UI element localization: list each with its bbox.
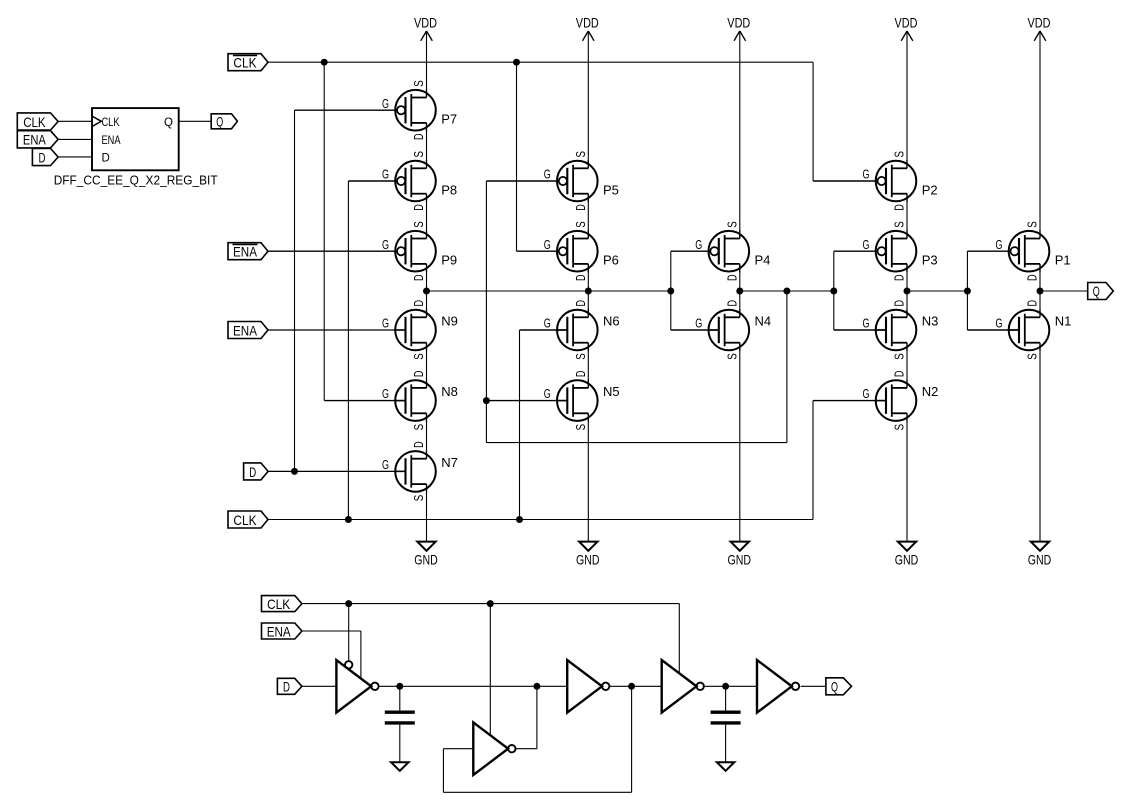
junction stage2 feedback tap: [783, 288, 790, 295]
wire D up to P7 gate: [294, 110, 296, 471]
svg-text:D: D: [892, 275, 907, 282]
svg-text:D: D: [725, 300, 740, 307]
transistor P6: [544, 221, 619, 281]
svg-text:CLK: CLK: [233, 55, 257, 71]
power VDD column 1: [414, 15, 437, 41]
wire net CLK horizontal: [268, 519, 813, 521]
svg-text:D: D: [573, 204, 588, 211]
flag CLK input: [228, 511, 268, 528]
wire rail column 2: [587, 413, 589, 541]
wire to P1 gate: [967, 250, 1010, 252]
wire to P2 gate: [813, 180, 878, 182]
transistor P2: [863, 151, 938, 211]
wire rail column 1: [426, 343, 428, 388]
svg-text:VDD: VDD: [1028, 15, 1051, 31]
wire to P8 gate: [348, 180, 397, 182]
svg-text:ENA: ENA: [102, 135, 121, 147]
flag ENA input of DFF block: [17, 131, 58, 148]
svg-text:G: G: [382, 457, 389, 472]
svg-text:G: G: [382, 237, 389, 252]
svg-text:VDD: VDD: [727, 15, 750, 31]
svg-text:G: G: [382, 167, 389, 182]
svg-text:D: D: [892, 204, 907, 211]
wire U3 input bottom horizontal: [443, 791, 631, 793]
svg-text:N6: N6: [603, 314, 620, 329]
svg-text:S: S: [725, 353, 740, 360]
svg-text:S: S: [411, 353, 426, 360]
wire CLK down to U3 enable: [489, 604, 491, 736]
junction stage2 at P3 N3 gates: [830, 288, 837, 295]
junction node master at P4 N4 gates: [667, 288, 674, 295]
wire C1 bottom: [399, 725, 401, 763]
svg-text:D: D: [573, 275, 588, 282]
wire net ENA bottom: [302, 630, 361, 632]
wire to N4 gate: [671, 329, 719, 331]
tri-state inverter U5: [662, 660, 704, 713]
svg-text:ENA: ENA: [267, 623, 291, 639]
svg-text:Q: Q: [831, 679, 838, 695]
wire rail column 1: [426, 264, 428, 317]
svg-text:N5: N5: [603, 384, 620, 399]
svg-text:D: D: [411, 204, 426, 211]
wire ENA flag to DFF block: [58, 138, 92, 140]
transistor P7: [382, 80, 457, 140]
svg-text:S: S: [1025, 221, 1040, 228]
wire rail column 1: [426, 484, 428, 541]
transistor N9: [382, 300, 458, 360]
svg-text:S: S: [573, 221, 588, 228]
wire CLK up to N6 gate: [519, 330, 521, 520]
flag Q output of DFF block: [211, 114, 237, 130]
inverter U4: [567, 660, 609, 713]
junction CLK_bar at x324: [321, 59, 328, 66]
wire U4 output node: [609, 685, 661, 687]
svg-text:G: G: [695, 316, 702, 331]
svg-text:S: S: [892, 221, 907, 228]
svg-text:D: D: [38, 149, 45, 165]
junction node master at rail2: [585, 288, 592, 295]
wire P4 N4 gate vertical: [670, 251, 672, 330]
wire CLK up to P8 gate: [347, 181, 349, 520]
flag CLK input bottom: [262, 596, 302, 612]
wire U5 output node: [704, 685, 757, 687]
junction CLK_bar at x516: [513, 59, 520, 66]
svg-text:G: G: [544, 167, 551, 182]
svg-text:DFF_CC_EE_Q_X2_REG_BIT: DFF_CC_EE_Q_X2_REG_BIT: [54, 173, 218, 188]
wire P1 N1 gate vertical: [966, 251, 968, 330]
ground GND column 4: [895, 542, 919, 568]
wire to P5 gate: [486, 180, 559, 182]
flag Q output bottom: [826, 678, 852, 695]
flag D input bottom: [277, 678, 302, 694]
svg-text:P3: P3: [922, 253, 938, 268]
svg-text:P9: P9: [441, 253, 457, 268]
wire ENA down to U2: [360, 631, 362, 679]
wire CLK down to U5 enable: [678, 604, 680, 673]
svg-text:G: G: [863, 316, 870, 331]
svg-text:S: S: [411, 151, 426, 158]
junction stage2 at rail3: [736, 288, 743, 295]
transistor P9: [382, 221, 457, 281]
DFF block clock wedge: [92, 116, 101, 126]
wire CLK down to U2 enable bubble: [348, 604, 350, 662]
transistor N3: [863, 300, 939, 360]
wire C2 bottom: [725, 725, 727, 763]
junction slave at rail4: [904, 288, 911, 295]
wire CLK_bar down to P6 gate: [516, 62, 518, 251]
wire rail column 4: [906, 264, 908, 317]
svg-text:D: D: [1025, 275, 1040, 282]
svg-text:S: S: [892, 151, 907, 158]
svg-text:Q: Q: [164, 117, 173, 129]
flag ENA_bar input: [228, 243, 268, 260]
wire C2 top: [725, 686, 727, 710]
junction D at x294: [291, 468, 298, 475]
svg-text:P1: P1: [1055, 253, 1071, 268]
capacitor C2: [711, 712, 741, 723]
svg-text:Q: Q: [216, 114, 223, 130]
svg-text:D: D: [102, 153, 110, 165]
wire U6 output to Q: [801, 685, 826, 687]
wire to N1 gate: [967, 329, 1018, 331]
svg-text:GND: GND: [1028, 552, 1052, 568]
svg-text:CLK: CLK: [23, 114, 46, 130]
wire rail column 3: [739, 264, 741, 317]
wire rail column 2: [587, 194, 589, 239]
ground GND column 2: [576, 542, 600, 568]
wire rail column 4: [906, 194, 908, 239]
junction CLK at x519: [516, 516, 523, 523]
tri-state inverter U2 (input stage): [336, 660, 378, 713]
svg-text:D: D: [573, 371, 588, 378]
svg-text:P5: P5: [603, 183, 619, 198]
junction CLK at x348: [345, 516, 352, 523]
wire net ENA_bar to P9 gate: [268, 250, 397, 252]
svg-text:GND: GND: [895, 552, 919, 568]
svg-text:GND: GND: [728, 552, 752, 568]
svg-text:G: G: [996, 316, 1003, 331]
wire into U3: [443, 748, 473, 750]
svg-text:N1: N1: [1055, 314, 1072, 329]
power VDD column 5: [1028, 15, 1051, 41]
svg-text:G: G: [544, 316, 551, 331]
svg-text:N3: N3: [922, 314, 939, 329]
wire node master output: [427, 290, 671, 292]
svg-text:D: D: [892, 371, 907, 378]
enable bubble of U2: [345, 661, 352, 668]
svg-text:G: G: [695, 237, 702, 252]
svg-text:D: D: [725, 275, 740, 282]
wire rail column 1: [426, 123, 428, 168]
transistor P1: [996, 221, 1071, 281]
wire feedback down: [786, 291, 788, 443]
ground below C1: [391, 762, 409, 771]
wire rail column 1: [426, 413, 428, 458]
wire rail column 2: [587, 343, 589, 388]
power VDD column 3: [727, 15, 750, 41]
wire rail column 3: [739, 31, 741, 239]
wire U3 output up: [536, 686, 538, 748]
transistor P4: [695, 221, 770, 281]
flag ENA input bottom: [262, 623, 302, 639]
transistor P8: [382, 151, 457, 211]
junction node master at rail1: [423, 288, 430, 295]
wire to P7 gate: [295, 109, 398, 111]
wire DFF block Q output: [179, 120, 212, 122]
svg-text:N8: N8: [441, 384, 458, 399]
wire CLK_bar down to P2 gate: [812, 62, 814, 181]
svg-text:G: G: [382, 386, 389, 401]
wire CLK flag to DFF block: [58, 120, 92, 122]
wire CLK_bar down to N8 gate: [323, 62, 325, 400]
DFF block symbol U1 body: [92, 108, 179, 170]
svg-text:S: S: [892, 424, 907, 431]
junction slave at P1 N1 gates: [964, 288, 971, 295]
svg-text:VDD: VDD: [414, 15, 437, 31]
svg-text:G: G: [544, 386, 551, 401]
transistor N4: [695, 300, 771, 360]
wire rail column 2: [587, 264, 589, 317]
svg-text:N7: N7: [441, 455, 458, 470]
flag D input: [244, 463, 269, 480]
svg-text:CLK: CLK: [233, 512, 257, 528]
svg-text:P6: P6: [603, 253, 619, 268]
ground below C2: [717, 762, 735, 771]
svg-text:CLK: CLK: [102, 117, 120, 129]
svg-text:ENA: ENA: [233, 244, 257, 260]
svg-text:G: G: [544, 237, 551, 252]
svg-text:S: S: [1025, 353, 1040, 360]
wire rail column 4: [906, 31, 908, 168]
wire net D to N7 gate: [268, 470, 406, 472]
svg-text:S: S: [411, 221, 426, 228]
junction CLK at U3: [487, 600, 494, 607]
wire to N5 gate: [486, 400, 567, 402]
wire U2 output node: [378, 685, 567, 687]
svg-text:S: S: [411, 494, 426, 501]
svg-text:P2: P2: [922, 183, 938, 198]
svg-text:GND: GND: [414, 552, 438, 568]
wire net ENA to N9 gate: [268, 329, 406, 331]
svg-text:N4: N4: [755, 314, 772, 329]
junction feedback at N5 gate: [483, 397, 490, 404]
transistor N8: [382, 371, 458, 431]
svg-text:D: D: [411, 371, 426, 378]
svg-text:ENA: ENA: [233, 322, 257, 338]
wire rail column 5: [1039, 343, 1041, 542]
svg-text:S: S: [573, 151, 588, 158]
transistor N1: [996, 300, 1072, 360]
power VDD column 4: [895, 15, 918, 41]
wire C1 top: [399, 686, 401, 710]
wire rail column 2: [587, 31, 589, 168]
wire node slave output: [907, 290, 967, 292]
wire to P6 gate: [517, 250, 559, 252]
svg-text:D: D: [1025, 300, 1040, 307]
ground GND column 1: [414, 542, 438, 568]
svg-text:S: S: [573, 424, 588, 431]
wire rail column 5: [1039, 264, 1041, 317]
svg-text:G: G: [382, 316, 389, 331]
svg-text:S: S: [725, 221, 740, 228]
wire to N3 gate: [834, 329, 886, 331]
svg-text:D: D: [283, 679, 290, 695]
flag ENA input: [228, 322, 268, 339]
svg-text:G: G: [863, 167, 870, 182]
transistor N7: [382, 441, 458, 501]
svg-text:D: D: [411, 300, 426, 307]
ground GND column 5: [1028, 542, 1052, 568]
wire node Q output: [1040, 290, 1087, 292]
wire to N6 gate: [520, 329, 568, 331]
wire to P3 gate: [834, 250, 878, 252]
wire U3 input down: [631, 686, 633, 792]
wire rail column 5: [1039, 31, 1041, 239]
svg-text:S: S: [411, 80, 426, 87]
svg-text:P8: P8: [441, 183, 457, 198]
wire net CLK bottom: [302, 603, 679, 605]
svg-text:N9: N9: [441, 314, 458, 329]
svg-text:D: D: [573, 300, 588, 307]
svg-text:D: D: [892, 300, 907, 307]
wire P3 N3 gate vertical: [833, 251, 835, 330]
junction CLK at U2: [345, 600, 352, 607]
svg-text:D: D: [411, 275, 426, 282]
svg-text:S: S: [573, 353, 588, 360]
svg-text:P7: P7: [441, 112, 457, 127]
wire rail column 4: [906, 413, 908, 541]
transistor N2: [863, 371, 939, 431]
junction Q at rail5: [1037, 288, 1044, 295]
svg-text:D: D: [411, 441, 426, 448]
svg-text:G: G: [382, 96, 389, 111]
wire rail column 3: [739, 343, 741, 542]
wire rail column 4: [906, 343, 908, 388]
svg-text:VDD: VDD: [895, 15, 918, 31]
capacitor C1: [385, 712, 415, 723]
wire net D bottom: [302, 685, 337, 687]
wire D flag to DFF block: [58, 156, 92, 158]
junction at C1: [396, 683, 403, 690]
svg-text:CLK: CLK: [267, 596, 291, 612]
svg-text:VDD: VDD: [576, 15, 599, 31]
svg-text:D: D: [411, 134, 426, 141]
wire to P4 gate: [671, 250, 711, 252]
junction U3 output tie: [533, 683, 540, 690]
svg-text:S: S: [892, 353, 907, 360]
svg-text:GND: GND: [576, 552, 600, 568]
ground GND column 3: [728, 542, 752, 568]
power VDD column 2: [576, 15, 599, 41]
svg-text:P4: P4: [755, 253, 771, 268]
svg-text:G: G: [863, 237, 870, 252]
svg-text:D: D: [249, 464, 256, 480]
wire net CLK_bar horizontal: [268, 61, 813, 63]
wire feedback up to P5 N5 gates: [485, 181, 487, 443]
svg-text:ENA: ENA: [23, 132, 47, 148]
flag CLK input of DFF block: [17, 113, 58, 130]
transistor P5: [544, 151, 619, 211]
wire node stage2 output: [740, 290, 834, 292]
svg-text:S: S: [411, 424, 426, 431]
inverter U6 (output): [757, 660, 799, 713]
wire U3 input up: [442, 749, 444, 793]
wire to N2 gate: [813, 400, 886, 402]
tri-state inverter U3 (feedback): [473, 722, 515, 775]
junction U3 input tap: [628, 683, 635, 690]
wire rail column 1: [426, 31, 428, 98]
transistor N5: [544, 371, 620, 431]
wire CLK up to N2 gate: [812, 401, 814, 520]
wire U3 output horizontal: [516, 748, 537, 750]
flag D input of DFF block: [32, 148, 58, 165]
flag Q output: [1088, 283, 1114, 300]
wire feedback horizontal: [486, 442, 787, 444]
svg-text:N2: N2: [922, 384, 939, 399]
junction at C2: [722, 683, 729, 690]
wire to N8 gate: [324, 400, 406, 402]
transistor P3: [863, 221, 938, 281]
svg-text:G: G: [863, 386, 870, 401]
svg-text:Q: Q: [1093, 283, 1100, 299]
wire rail column 1: [426, 194, 428, 239]
flag CLK_bar input: [228, 54, 268, 71]
svg-text:G: G: [996, 237, 1003, 252]
transistor N6: [544, 300, 620, 360]
